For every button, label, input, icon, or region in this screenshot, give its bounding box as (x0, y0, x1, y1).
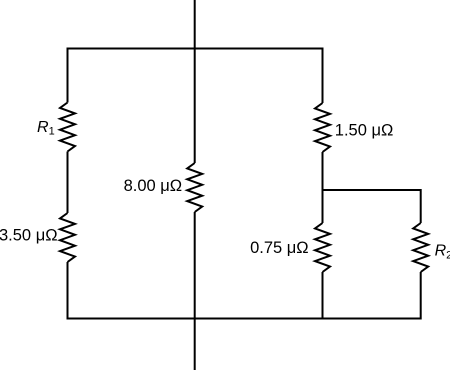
svg-text:8.00 μΩ: 8.00 μΩ (124, 177, 183, 195)
svg-text:R2: R2 (435, 243, 450, 262)
svg-text:3.50 μΩ: 3.50 μΩ (0, 226, 58, 244)
svg-text:1.50 μΩ: 1.50 μΩ (335, 122, 394, 140)
svg-text:0.75 μΩ: 0.75 μΩ (250, 239, 309, 257)
svg-text:R1: R1 (37, 119, 55, 138)
